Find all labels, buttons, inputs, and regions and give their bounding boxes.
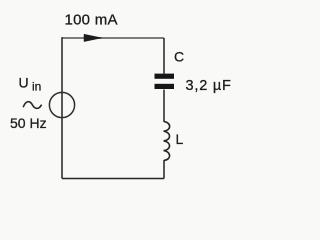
wire left xyxy=(61,37,63,178)
inductor L1 coil xyxy=(164,122,170,161)
capacitor C1 plate top xyxy=(155,74,175,79)
svg-text:3,2 µF: 3,2 µF xyxy=(186,78,232,94)
source U1 circle xyxy=(49,92,74,117)
svg-text:50 Hz: 50 Hz xyxy=(10,115,47,131)
capacitor C1 plate bottom xyxy=(155,84,175,89)
wire top xyxy=(62,37,164,39)
svg-text:100 mA: 100 mA xyxy=(65,12,118,29)
svg-text:C: C xyxy=(174,49,184,65)
sine symbol xyxy=(23,102,41,109)
wire right lower xyxy=(163,160,165,179)
wire bottom xyxy=(62,178,164,180)
wire right middle xyxy=(163,90,165,123)
svg-text:L: L xyxy=(176,131,184,147)
wire right upper xyxy=(163,38,165,74)
current arrow 100 mA xyxy=(84,34,102,41)
